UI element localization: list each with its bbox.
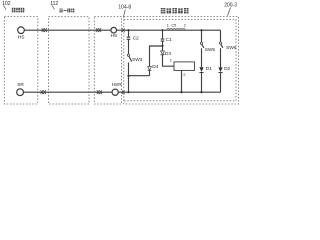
svg-text:D3: D3: [165, 51, 171, 57]
svg-text:200-3: 200-3: [224, 3, 237, 9]
svg-text:104-8: 104-8: [118, 4, 131, 10]
svg-text:102: 102: [2, 1, 11, 7]
svg-text:2: 2: [184, 23, 186, 27]
svg-text:D4: D4: [152, 64, 158, 70]
svg-text:D1: D1: [206, 66, 212, 72]
svg-text:D2: D2: [224, 66, 230, 72]
svg-text:SR: SR: [17, 82, 24, 88]
svg-text:112: 112: [50, 1, 58, 7]
svg-text:C2: C2: [133, 36, 139, 42]
svg-text:HS: HS: [18, 34, 25, 40]
svg-text:2: 2: [183, 72, 186, 77]
svg-text:1: 1: [167, 23, 169, 27]
svg-text:1: 1: [170, 57, 173, 62]
svg-text:SW6: SW6: [226, 45, 237, 51]
svg-text:C5: C5: [171, 23, 176, 27]
svg-text:C1: C1: [166, 37, 172, 43]
svg-text:SW3: SW3: [132, 57, 143, 63]
svg-text:HS: HS: [111, 33, 118, 39]
svg-text:HSR: HSR: [112, 82, 123, 88]
svg-text:SW5: SW5: [205, 47, 216, 53]
